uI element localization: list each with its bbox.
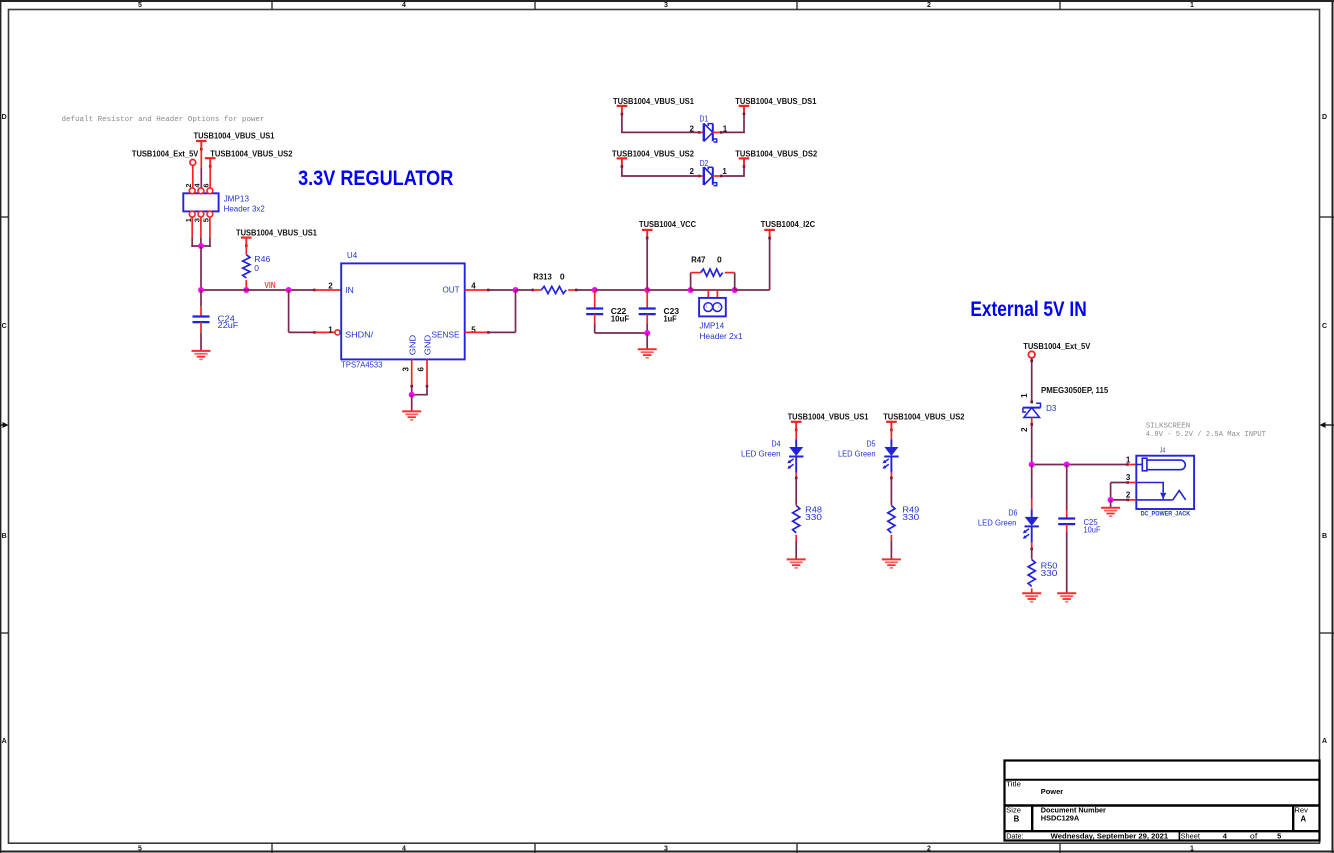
pin numbers J4 [1126,456,1131,500]
wire u4 pin6 drop [426,386,428,395]
svg-text:1: 1 [1190,2,1194,9]
diode D3 [1023,403,1041,417]
power flag TUSB1004_VBUS_US1 r46 [241,238,252,248]
wire shdn horiz [289,331,315,333]
wire u4 pin2 stub [315,289,342,291]
svg-text:2: 2 [718,304,721,310]
wire r50 top stub [1031,558,1033,560]
svg-text:B: B [1322,533,1327,540]
LED D5 [883,440,899,473]
wire d4 to r48 [795,478,797,504]
svg-text:TUSB1004_VCC: TUSB1004_VCC [639,220,696,229]
wire d2 pin2 stub [699,175,703,177]
svg-text:1: 1 [705,304,708,310]
svg-text:B: B [2,533,7,540]
wire u4 gnd bus [411,394,428,396]
wire pin6 stub [209,165,211,188]
pin numbers JMP13 [184,183,211,223]
resistor R46 [243,255,250,278]
svg-text:defualt Resistor and Header Op: defualt Resistor and Header Options for … [62,116,265,124]
svg-text:VIN: VIN [264,280,275,290]
svg-text:1: 1 [722,167,727,176]
wire c25 drop [1066,465,1068,511]
node junction c25 tap [1064,462,1070,468]
wire j4 pin3 stub [1128,482,1137,484]
wire c22 drop [594,324,596,333]
wire jmp13 pin1 drop [191,237,193,247]
wire d4 cathode stub [795,473,797,478]
svg-text:3: 3 [664,2,668,9]
wire c23 bot stub [646,314,648,324]
wire pin4 stub lower [200,168,202,188]
svg-text:0: 0 [717,254,722,264]
connector JMP13 Header 3x2 [183,188,218,217]
svg-text:3.3V REGULATOR: 3.3V REGULATOR [298,165,454,190]
svg-text:D6: D6 [1008,508,1017,518]
wire j4 gnd drop [1110,500,1112,508]
wire r46 bottom stub [245,280,247,290]
svg-text:B: B [1014,815,1020,824]
wire r48 top stub [795,504,797,506]
wire j4 pin3 horiz [1111,482,1128,484]
svg-text:LED Green: LED Green [741,448,781,458]
svg-text:5: 5 [138,2,142,9]
wire out seg6 [691,289,735,291]
svg-text:2: 2 [1126,490,1131,499]
wire c23 drop [646,324,648,333]
wire r47 left stub [691,272,701,274]
node junction jmp13 bus [198,243,204,249]
wire out seg1 [488,289,515,291]
wire d1 left horiz [621,131,699,133]
wire out seg5 [647,289,690,291]
power flag TUSB1004_VBUS_DS2 [739,158,750,168]
wire jmp13 pin5 stub [209,217,211,237]
svg-text:A: A [1300,815,1306,824]
connector J4 internals [1136,458,1185,500]
node junction d6 tap [1029,462,1035,468]
wire c24 top stub [200,306,202,317]
node junction u4 gnd [409,392,415,398]
svg-text:D4: D4 [772,438,781,448]
wire c24 bot stub [200,322,202,333]
svg-text:1: 1 [328,325,333,334]
power flag TUSB1004_VBUS_US1 [196,141,207,151]
wire d1 pin1 stub [713,131,722,133]
svg-text:D2: D2 [700,158,709,168]
wire sense horiz [488,331,515,333]
power flag TUSB1004_VBUS_US2 d5 [886,422,897,432]
svg-text:C: C [1322,323,1327,330]
svg-text:Rev: Rev [1294,806,1308,815]
wire jmp14 pin2 stub [716,290,718,298]
ground c24 [192,351,211,360]
wire c22-c23 gnd bus [595,332,648,334]
wire r47 left rise [690,273,692,290]
svg-text:1: 1 [1190,846,1194,853]
svg-text:2: 2 [690,124,695,133]
svg-text:TPS7A4533: TPS7A4533 [341,360,382,370]
node junction vin-shdn tap [286,287,292,293]
wire d5 anode stub [890,428,892,440]
wire c25 top stub [1066,510,1068,519]
ground r50 [1022,593,1041,602]
power flag TUSB1004_VCC [642,230,653,240]
svg-text:6: 6 [416,367,425,372]
svg-text:TUSB1004_VBUS_US1: TUSB1004_VBUS_US1 [788,413,869,422]
svg-text:D5: D5 [867,438,876,448]
power flag TUSB1004_VBUS_US2 [205,158,216,168]
wire j4 pin2 stub [1128,499,1137,501]
svg-text:1: 1 [1126,456,1131,465]
svg-text:IN: IN [345,285,354,295]
wire c24 top [200,290,202,306]
LED D6 [1023,509,1039,542]
svg-text:Header 3x2: Header 3x2 [224,204,265,214]
svg-text:0: 0 [560,271,565,281]
ground r49 [882,559,901,568]
wire d6 anode stub [1031,499,1033,510]
wire sense vert [515,290,517,332]
svg-text:2: 2 [184,183,193,187]
svg-text:TUSB1004_Ext_5V: TUSB1004_Ext_5V [132,150,199,159]
wire jmp13 bottom bus [191,245,211,247]
svg-text:TUSB1004_I2C: TUSB1004_I2C [761,220,816,229]
node junction r47 left tap [688,287,694,293]
svg-text:GND: GND [422,335,432,356]
svg-text:D3: D3 [1046,403,1056,413]
svg-text:D: D [1322,114,1327,121]
wire r313 right stub [568,289,576,291]
wire d2 right rise [743,166,745,176]
svg-text:TUSB1004_VBUS_US2: TUSB1004_VBUS_US2 [210,150,293,159]
svg-text:330: 330 [902,512,919,522]
connector J4 body [1136,456,1194,509]
wire c23 top stub [646,290,648,309]
svg-text:SENSE: SENSE [432,329,460,339]
wire vin bus [200,289,315,291]
wire j4 pin1 stub [1128,464,1137,466]
power flag TUSB1004_I2C [764,230,775,240]
node junction c24 tap [198,287,204,293]
svg-text:J4: J4 [1160,448,1165,455]
svg-text:External 5V IN: External 5V IN [970,298,1086,321]
svg-text:Title: Title [1006,780,1021,789]
resistor R49 [888,506,895,533]
capacitor C24 [193,317,210,323]
wire pin2 stub [192,165,194,188]
svg-text:HSDC129A: HSDC129A [1041,814,1080,823]
wire d2 right horiz [721,175,745,177]
wire jmp13 pin5 drop [209,237,211,247]
wire d2 left horiz [621,175,699,177]
wire i2c rise [769,237,771,290]
svg-text:4.8V - 5.2V / 2.5A Max INPUT: 4.8V - 5.2V / 2.5A Max INPUT [1146,431,1267,439]
svg-text:2: 2 [927,2,931,9]
wire jmp13 pin3 drop [200,237,202,246]
wire r48 bot stub [795,535,797,541]
diode D2 [704,167,717,186]
LED D4 [787,440,803,473]
wire d6 drop [1031,465,1033,499]
wire c22 top stub [594,290,596,309]
connector JMP14 Header 2x1 [699,298,726,317]
wire vcc drop [646,238,648,290]
svg-text:TUSB1004_VBUS_US2: TUSB1004_VBUS_US2 [883,413,965,422]
wire c25 bot stub [1066,524,1068,532]
wire u4 pin6 stub [426,359,428,386]
wire u4 pin4 stub [465,289,489,291]
wire out seg2 [516,289,534,291]
wire c24 to gnd [200,333,202,351]
wire jmp13 pin1 stub [191,217,193,237]
power flag TUSB1004_VBUS_US2 d2 [617,158,628,168]
wire ext5v bus [1032,464,1128,466]
svg-text:R313: R313 [533,271,552,281]
svg-text:GND: GND [407,335,417,356]
pin numbers U4 [328,282,476,372]
wire r313 left stub [533,289,541,291]
svg-text:A: A [1322,738,1327,745]
svg-text:Wednesday, September 29, 2021: Wednesday, September 29, 2021 [1051,832,1169,841]
wire d1 right rise [743,114,745,132]
capacitor C22 [586,309,603,315]
wire pin4 stub upper [200,148,202,168]
svg-text:22uF: 22uF [218,320,239,330]
wire u4 gnd drop [411,395,413,412]
wire j4 pin3 drop [1110,483,1112,500]
wire r50 bot stub [1031,588,1033,593]
ground u4 [402,411,421,420]
svg-text:C: C [2,323,7,330]
svg-text:330: 330 [1041,568,1058,578]
regulator U4 body [341,263,465,359]
svg-text:of: of [1250,832,1258,841]
capacitor C23 [639,309,656,315]
wire u4 pin3 stub [411,359,413,386]
wire r49 bot stub [890,535,892,541]
wire u4 pin1 stub [315,331,335,333]
wire d6 to r50 [1031,549,1033,558]
wire u4 pin3 drop [411,386,413,395]
pin names U4 [345,285,460,356]
node junction r46 [243,287,249,293]
svg-text:Power: Power [1041,787,1063,796]
node junction c22 tap [592,287,598,293]
wire r49 to gnd [890,541,892,560]
svg-text:Date:: Date: [1006,832,1023,841]
offpage connector TUSB1004_Ext_5V [190,160,196,166]
wire d5 to r49 [890,478,892,504]
offpage connector TUSB1004_Ext_5V d3 [1028,351,1035,358]
svg-text:U4: U4 [347,250,358,260]
wire out seg3 [576,289,594,291]
wire out seg7 [735,289,770,291]
node junction j4 gnd [1108,497,1114,503]
svg-text:TUSB1004_VBUS_US1: TUSB1004_VBUS_US1 [194,132,275,141]
resistor R48 [793,506,800,533]
resistor R47 [701,269,723,276]
svg-text:JMP13: JMP13 [224,193,250,203]
svg-text:TUSB1004_Ext_5V: TUSB1004_Ext_5V [1023,342,1091,351]
wire r46 top stub [245,244,247,255]
svg-text:D: D [2,114,7,121]
wire r48 to gnd [795,541,797,560]
wire r47 right stub [725,272,735,274]
wire r49 top stub [890,504,892,506]
svg-text:3: 3 [1126,473,1131,482]
wire shdn drop [288,290,290,332]
svg-text:5: 5 [1277,832,1281,841]
ground r48 [787,559,806,568]
wire r47 right drop [734,273,736,290]
node junction vcc tap [644,287,650,293]
wire jmp14 pin1 stub [707,290,709,298]
svg-text:3: 3 [664,846,668,853]
svg-text:D1: D1 [700,114,709,124]
svg-text:LED Green: LED Green [838,448,876,458]
svg-text:3: 3 [401,367,410,372]
ground c22 c23 [638,349,657,358]
power flag TUSB1004_VBUS_DS1 [739,106,750,116]
svg-text:R47: R47 [691,254,706,264]
svg-text:0: 0 [254,263,259,273]
ground j4 [1101,508,1120,517]
wire d1 right horiz [721,131,745,133]
svg-text:1uF: 1uF [664,314,677,324]
svg-text:10uF: 10uF [611,314,630,324]
svg-text:Size: Size [1006,806,1021,815]
wire d3 to bus [1031,424,1033,464]
wire d4 anode stub [795,428,797,440]
wire j4 pin2 horiz [1110,499,1128,501]
svg-text:1: 1 [1020,393,1029,398]
svg-text:Header 2x1: Header 2x1 [700,331,743,341]
wire d2 left drop [621,166,623,176]
svg-text:DC_POWER_JACK: DC_POWER_JACK [1141,510,1191,517]
wire ext5v drop [1031,358,1033,403]
svg-text:LED Green: LED Green [978,517,1017,527]
power flag TUSB1004_VBUS_US1 d1 [617,106,628,116]
pin bubble SHDN [335,330,340,335]
svg-text:TUSB1004_VBUS_DS2: TUSB1004_VBUS_DS2 [735,150,817,159]
svg-text:Sheet: Sheet [1181,832,1201,841]
ground c25 [1057,593,1076,602]
power flag TUSB1004_VBUS_US1 d4 [791,422,802,432]
wire jmp13 pin3 stub [200,217,202,237]
wire c22 bot stub [594,314,596,324]
wire d3 bot stub [1031,418,1033,425]
svg-text:2: 2 [328,282,333,291]
svg-text:2: 2 [690,167,695,176]
svg-text:JMP14: JMP14 [700,321,725,331]
svg-text:4: 4 [402,2,406,9]
svg-text:SHDN/: SHDN/ [345,329,374,339]
diode D1 [704,123,717,142]
svg-text:10uF: 10uF [1084,525,1101,535]
svg-text:TUSB1004_VBUS_US1: TUSB1004_VBUS_US1 [236,229,317,238]
resistor R50 [1028,560,1035,587]
svg-text:A: A [2,738,7,745]
svg-text:SILKSCREEN: SILKSCREEN [1146,423,1191,431]
svg-text:2: 2 [927,846,931,853]
node junction r47 right tap [732,287,738,293]
svg-text:PMEG3050EP, 115: PMEG3050EP, 115 [1041,385,1108,395]
svg-text:4: 4 [402,846,406,853]
svg-text:6: 6 [202,183,211,187]
wire d1 pin2 stub [699,131,703,133]
resistor R313 [541,286,566,293]
wire out seg4 [595,289,648,291]
wire d5 cathode stub [890,473,892,478]
wire d1 left drop [621,114,623,132]
title block [1005,761,1320,841]
capacitor C25 [1058,519,1075,525]
wire u4 pin5 stub [465,331,489,333]
wire d2 pin1 stub [713,175,722,177]
wire jmp13 to vin bus [200,246,202,290]
svg-text:5: 5 [138,846,142,853]
wire d6 cathode stub [1031,543,1033,549]
wire c25 to gnd [1066,532,1068,593]
node junction c23 gnd [644,330,650,336]
node junction out-sense [513,287,519,293]
svg-text:2: 2 [1020,427,1029,432]
svg-text:TUSB1004_VBUS_US2: TUSB1004_VBUS_US2 [612,150,694,159]
svg-text:330: 330 [805,512,822,522]
wire gnd drop c22c23 [646,333,648,349]
svg-text:OUT: OUT [443,285,460,295]
